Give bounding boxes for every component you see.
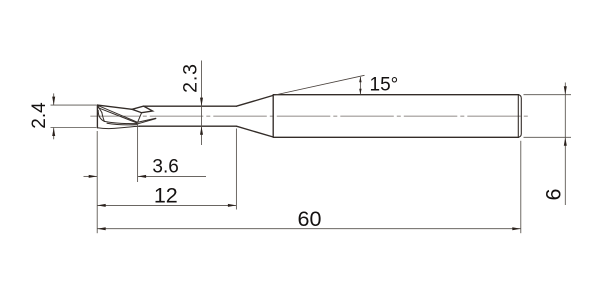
extension line at shank end (60 dim)	[520, 141, 522, 233]
main cutting edge diagonal (lower companion)	[98, 108, 137, 123]
arrow 6 top	[564, 86, 567, 95]
2.4 dimension line upper	[53, 93, 55, 105]
shank end face	[518, 95, 521, 138]
arrow 15deg up	[359, 76, 361, 82]
shank bottom line	[273, 136, 518, 138]
2.4 top extension line	[51, 104, 97, 106]
extension line at taper start (12 dim)	[235, 129, 237, 210]
3.6 dimension line left tail	[84, 175, 98, 177]
arrow 60 right	[512, 227, 521, 230]
centerline (chain line through tool axis)	[90, 115, 528, 117]
arrow 2.3 top	[200, 98, 203, 107]
rear flute edge upper	[138, 118, 156, 122]
main cutting edge diagonal (upper)	[97, 105, 137, 122]
taper top line	[236, 95, 273, 106]
6 dimension line	[564, 83, 566, 206]
15 deg dimension arc line	[359, 77, 361, 94]
tip gash curve a	[102, 112, 105, 121]
svg-text:6: 6	[541, 188, 565, 200]
60 dimension line	[97, 228, 521, 230]
3.6 dimension line right tail	[138, 175, 206, 177]
svg-text:15°: 15°	[370, 74, 399, 95]
2.4 bottom extension line	[51, 127, 97, 129]
tip gash curve b	[98, 110, 104, 121]
lower flute edge line	[104, 121, 137, 123]
flute top silhouette	[97, 105, 132, 109]
extension line at flute end (3.6 dim)	[137, 122, 139, 183]
arrow 3.6 right	[138, 175, 147, 178]
arrow 60 left	[97, 227, 106, 230]
arrow 2.4 top	[52, 97, 55, 106]
arrow 2.3 bottom	[200, 126, 203, 135]
arrow 12 left	[97, 204, 106, 207]
rear flute edge lower	[138, 119, 156, 124]
extension line from tool tip (3.6/12/60 dims)	[96, 131, 98, 233]
facet edge from diamond to flute junction	[138, 113, 142, 123]
bottom silhouette of flutes	[97, 126, 139, 128]
taper bottom line	[236, 126, 273, 137]
neck top line	[144, 105, 237, 107]
leader line for 15 deg taper angle	[273, 75, 364, 95]
svg-text:12: 12	[154, 184, 178, 208]
2.4 dimension line lower	[53, 128, 55, 140]
svg-text:60: 60	[298, 207, 322, 231]
6 top extension line	[524, 94, 572, 96]
flute end gash facet (diamond)	[132, 106, 153, 113]
shank end chamfer line	[517, 95, 519, 137]
taper-shank junction line	[272, 96, 274, 137]
tip face facet line	[97, 105, 101, 112]
arrow 12 right	[228, 204, 237, 207]
2.3 dimension line	[201, 61, 203, 146]
tool tip face	[96, 105, 98, 128]
svg-text:2.4: 2.4	[29, 102, 50, 129]
svg-text:3.6: 3.6	[152, 157, 178, 178]
svg-text:2.3: 2.3	[180, 63, 202, 93]
arrow 3.6 left	[89, 175, 98, 178]
arrow 6 bottom	[564, 137, 567, 146]
6 bottom extension line	[524, 136, 572, 138]
arrow 2.4 bottom	[52, 128, 55, 137]
12 dimension line	[97, 204, 236, 206]
neck bottom line	[139, 125, 236, 127]
lower flute edge line b	[107, 123, 138, 125]
shank top line	[273, 94, 518, 96]
arrow 15deg down	[359, 89, 361, 95]
